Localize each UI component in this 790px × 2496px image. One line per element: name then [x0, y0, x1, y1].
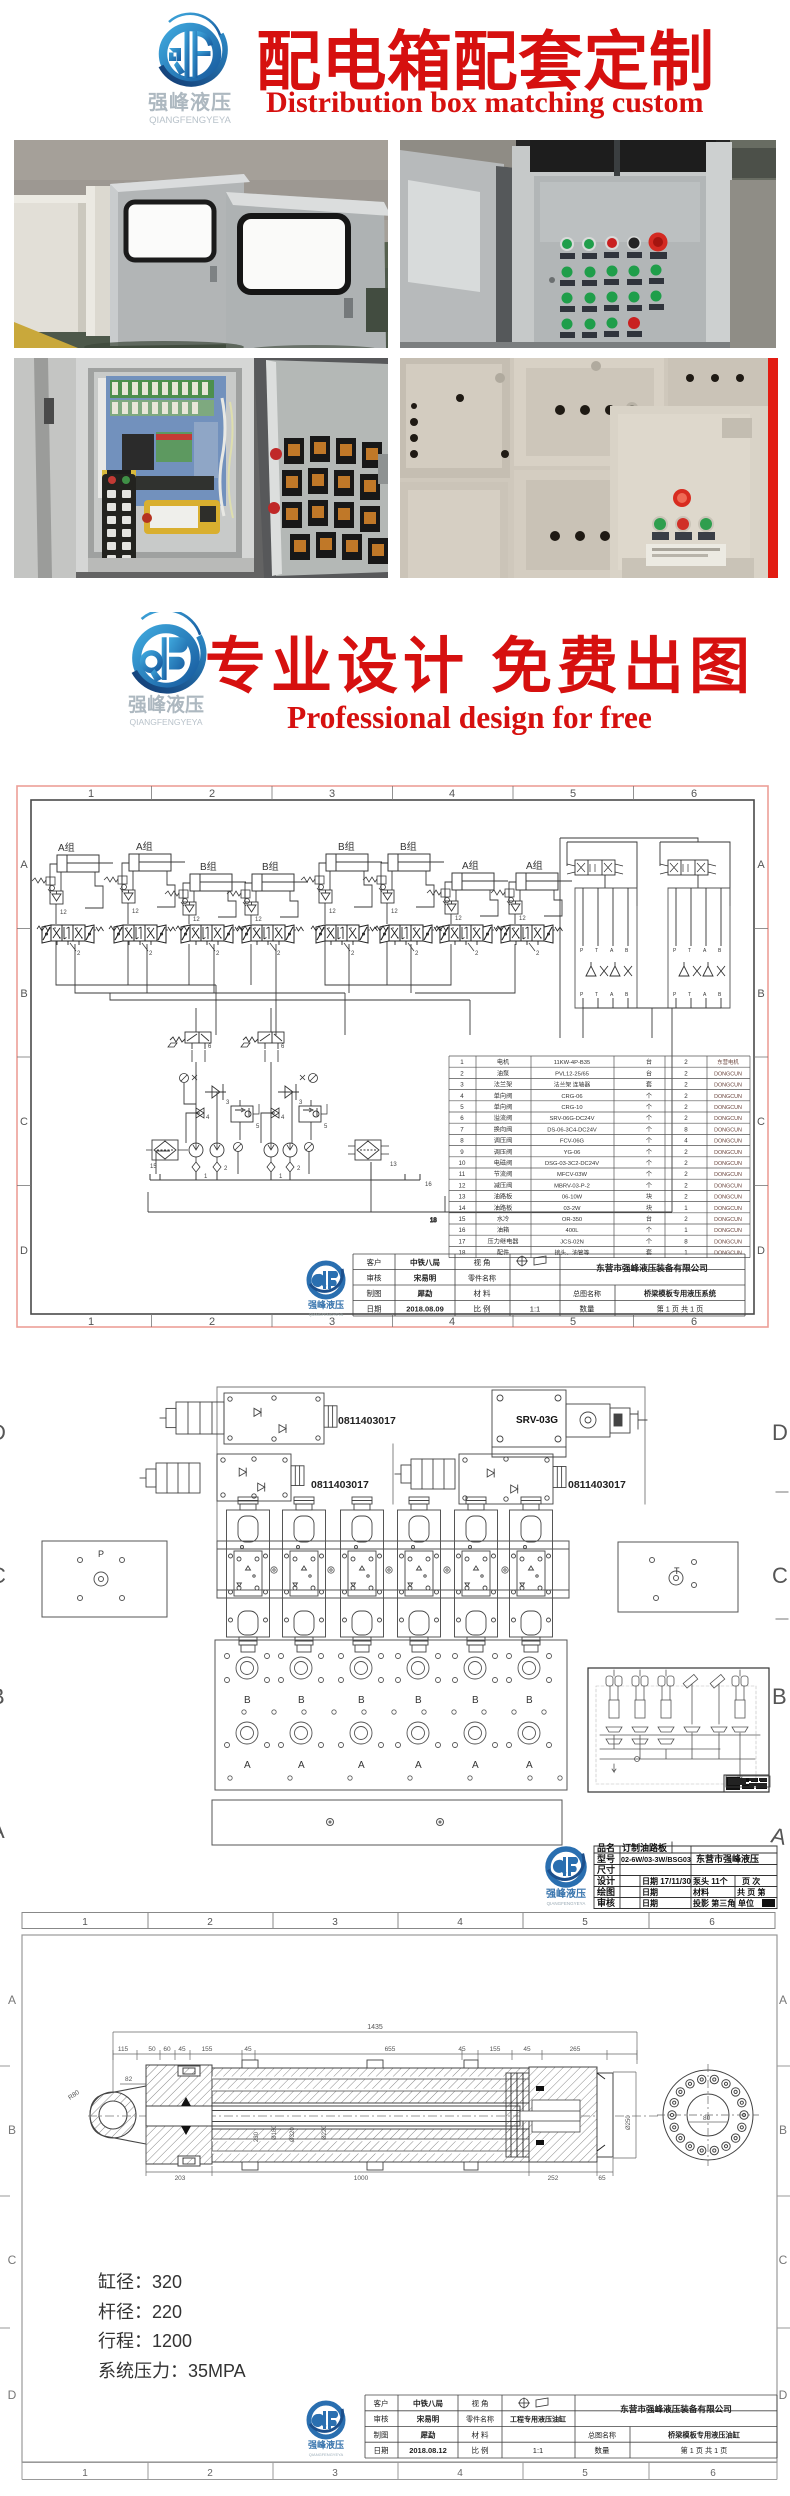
reducing valve RD1 [231, 1104, 260, 1130]
frame column ticks bottom [152, 1314, 634, 1327]
svg-text:2: 2 [216, 951, 220, 957]
svg-text:B: B [625, 992, 629, 998]
svg-text:12: 12 [391, 909, 398, 915]
svg-text:单位: 单位 [738, 1898, 754, 1908]
svg-text:1: 1 [460, 1059, 464, 1066]
cropped top frame line [0, 1352, 790, 1354]
svg-text:203: 203 [175, 2175, 186, 2182]
svg-text:B: B [0, 1684, 5, 1709]
svg-text:个: 个 [646, 1104, 652, 1111]
directional valve V5 [311, 925, 378, 957]
svg-text:4: 4 [457, 1917, 463, 1928]
relief pilot assembly RV1 [168, 1032, 212, 1062]
svg-text:日期: 日期 [367, 1304, 382, 1313]
svg-text:0811403017: 0811403017 [568, 1479, 626, 1491]
svg-text:B: B [625, 948, 629, 954]
svg-text:数量: 数量 [595, 2445, 610, 2455]
svg-text:个: 个 [646, 1171, 652, 1178]
svg-text:2: 2 [684, 1194, 688, 1201]
svg-text:1:1: 1:1 [530, 1304, 540, 1313]
svg-text:审核: 审核 [367, 1272, 382, 1282]
svg-text:配件: 配件 [497, 1249, 509, 1257]
cartridge valve column 5 [455, 1497, 498, 1652]
svg-text:1: 1 [684, 1205, 688, 1212]
svg-text:400L: 400L [566, 1228, 580, 1234]
svg-text:DONGCUN: DONGCUN [714, 1071, 742, 1077]
svg-text:油路板: 油路板 [494, 1193, 513, 1201]
cylinder group G6 B组 [363, 840, 444, 924]
svg-text:DONGCUN: DONGCUN [714, 1150, 742, 1156]
svg-text:个: 个 [646, 1238, 652, 1245]
svg-text:SRV-03G: SRV-03G [516, 1415, 558, 1426]
svg-text:DONGCUN: DONGCUN [714, 1161, 742, 1167]
svg-text:东营市强峰液压装备有限公司: 东营市强峰液压装备有限公司 [620, 2403, 732, 2414]
svg-text:B: B [298, 1695, 305, 1706]
svg-text:A组: A组 [462, 859, 479, 872]
svg-text:2: 2 [77, 951, 81, 957]
svg-text:5: 5 [582, 1917, 588, 1928]
frame tick dashes d3 [0, 2066, 790, 2328]
svg-text:A: A [8, 1993, 16, 2007]
svg-text:252: 252 [548, 2175, 559, 2182]
svg-text:7: 7 [460, 1126, 464, 1133]
svg-text:4: 4 [206, 1115, 210, 1121]
relief pilot assembly RV2 [241, 1032, 285, 1062]
svg-text:油路板: 油路板 [494, 1204, 513, 1212]
svg-text:DONGCUN: DONGCUN [714, 1183, 742, 1189]
cylinder group G1 A组 [32, 841, 113, 924]
cylinder rod eye [90, 2086, 146, 2144]
svg-text:客户: 客户 [367, 1257, 382, 1267]
svg-text:B: B [8, 2123, 16, 2137]
svg-text:MFCV-03W: MFCV-03W [557, 1172, 587, 1178]
svg-text:C: C [757, 1116, 765, 1128]
svg-text:PVL12-25/65: PVL12-25/65 [555, 1071, 589, 1077]
svg-text:10: 10 [459, 1160, 466, 1167]
rod [146, 2106, 520, 2126]
barrel top wall [212, 2068, 529, 2103]
svg-text:12: 12 [193, 917, 200, 923]
bottom tick band d3 [22, 2463, 777, 2480]
cylinder group G3 B组 [165, 860, 246, 924]
manifold base plate with A/B ports [215, 1640, 567, 1790]
svg-text:2: 2 [536, 951, 540, 957]
svg-text:QIANGFENGYEYA: QIANGFENGYEYA [309, 2452, 344, 2457]
cartridge valve column 3 [341, 1497, 384, 1652]
svg-text:2: 2 [684, 1171, 688, 1178]
svg-text:个: 个 [646, 1182, 652, 1189]
cartridge valve column 6 [510, 1497, 553, 1652]
pressure gauge g2 [300, 1074, 318, 1083]
solenoid valve assembly SV2 [140, 1454, 304, 1501]
svg-text:3: 3 [332, 1917, 338, 1928]
svg-text:B组: B组 [338, 840, 355, 853]
bottom tick numbers d2 [82, 1917, 715, 1928]
svg-text:数量: 数量 [580, 1303, 595, 1313]
svg-text:13: 13 [390, 1162, 397, 1168]
svg-text:A: A [0, 1818, 5, 1843]
svg-text:第 1 页 共 1 页: 第 1 页 共 1 页 [681, 2446, 728, 2455]
reducing valve RD2 [299, 1104, 328, 1130]
svg-text:1: 1 [88, 788, 94, 800]
svg-text:R80: R80 [67, 2089, 81, 2102]
svg-text:DS-06-3C4-DC24V: DS-06-3C4-DC24V [547, 1127, 597, 1133]
frame row letters [20, 859, 765, 1257]
seals marks [181, 2086, 544, 2145]
svg-text:东营电机: 东营电机 [717, 1058, 739, 1066]
frame column numbers bottom [88, 1316, 697, 1328]
right vertical dim line [613, 2072, 636, 2158]
svg-text:16: 16 [425, 1182, 432, 1188]
svg-text:230: 230 [254, 2131, 260, 2142]
svg-text:P: P [673, 992, 677, 998]
drawing inner frame [31, 800, 754, 1314]
svg-text:B组: B组 [200, 860, 217, 873]
svg-text:DONGCUN: DONGCUN [714, 1116, 742, 1122]
svg-text:2: 2 [684, 1082, 688, 1089]
svg-text:东营市强峰液压: 东营市强峰液压 [696, 1853, 759, 1864]
svg-text:T: T [674, 1566, 680, 1576]
svg-text:12: 12 [255, 917, 262, 923]
svg-text:3: 3 [460, 1082, 464, 1089]
svg-text:DONGCUN: DONGCUN [714, 1105, 742, 1111]
right frame letters d2 [769, 1420, 789, 1850]
svg-text:制图: 制图 [374, 2429, 389, 2439]
left partial letters d2 [0, 1420, 6, 1843]
svg-text:中铁八局: 中铁八局 [413, 2398, 443, 2408]
svg-text:155: 155 [202, 2046, 213, 2053]
svg-text:2018.08.09: 2018.08.09 [406, 1304, 444, 1313]
parts list table [449, 1056, 750, 1258]
svg-text:B组: B组 [400, 840, 417, 853]
svg-text:DONGCUN: DONGCUN [714, 1139, 742, 1145]
svg-text:减压阀: 减压阀 [494, 1181, 513, 1189]
bottom cover plate [212, 1800, 562, 1845]
svg-text:DONGCUN: DONGCUN [714, 1239, 742, 1245]
svg-text:A: A [769, 1822, 789, 1850]
svg-text:DONGCUN: DONGCUN [714, 1127, 742, 1133]
svg-text:CRG-10: CRG-10 [561, 1105, 582, 1111]
svg-text:Ø220: Ø220 [322, 2125, 328, 2140]
svg-text:B: B [718, 948, 722, 954]
svg-text:T: T [688, 948, 691, 954]
svg-text:2: 2 [684, 1149, 688, 1156]
inset title strip [724, 1775, 769, 1792]
svg-text:客户: 客户 [374, 2398, 389, 2408]
svg-text:2: 2 [684, 1070, 688, 1077]
svg-text:个: 个 [646, 1227, 652, 1234]
svg-text:5: 5 [570, 788, 576, 800]
svg-text:东营市强峰液压装备有限公司: 东营市强峰液压装备有限公司 [596, 1262, 708, 1273]
solenoid valve assembly SV1 [160, 1393, 337, 1444]
svg-text:DONGCUN: DONGCUN [714, 1206, 742, 1212]
svg-text:总图名称: 总图名称 [588, 2430, 616, 2439]
svg-text:1: 1 [279, 1174, 283, 1180]
svg-text:A: A [703, 992, 707, 998]
svg-text:A: A [358, 1760, 365, 1771]
frame letters d3 [8, 1993, 788, 2402]
svg-text:电机: 电机 [497, 1058, 510, 1066]
svg-text:3: 3 [226, 1100, 230, 1106]
svg-text:1: 1 [82, 1917, 88, 1928]
svg-text:12: 12 [329, 909, 336, 915]
svg-text:投影 第三角: 投影 第三角 [693, 1898, 735, 1908]
directional valve V1 [37, 925, 104, 957]
svg-text:0811403017: 0811403017 [338, 1415, 396, 1427]
svg-text:台: 台 [646, 1215, 652, 1223]
svg-text:15: 15 [150, 1164, 157, 1170]
svg-text:P: P [580, 992, 584, 998]
mounting back plate outline [217, 1387, 645, 1540]
logo small 2 [546, 1849, 586, 1906]
svg-text:1: 1 [82, 2468, 88, 2479]
cylinder group G4 B组 [227, 860, 308, 924]
pump P2 [264, 1143, 314, 1181]
svg-text:B: B [757, 988, 764, 1000]
svg-text:2: 2 [149, 951, 153, 957]
pressure gauge g1 [180, 1074, 198, 1083]
svg-text:台: 台 [646, 1058, 652, 1066]
dim total 1435 [113, 2032, 637, 2092]
svg-text:15: 15 [459, 1216, 466, 1223]
svg-text:4: 4 [457, 2468, 463, 2479]
barrel inner lines [212, 2078, 529, 2152]
svg-text:2: 2 [460, 1070, 464, 1077]
svg-text:155: 155 [490, 2046, 501, 2053]
directional valve V6 [375, 925, 442, 957]
svg-text:OR-350: OR-350 [562, 1217, 582, 1223]
svg-text:个: 个 [646, 1126, 652, 1133]
svg-text:8: 8 [684, 1126, 688, 1133]
svg-text:犀勐: 犀勐 [417, 1288, 433, 1298]
svg-text:2: 2 [277, 951, 281, 957]
svg-text:材料: 材料 [693, 1887, 709, 1897]
svg-text:SRV-06G-DC24V: SRV-06G-DC24V [550, 1116, 595, 1122]
svg-text:宋易明: 宋易明 [417, 2414, 440, 2424]
throttle T1 [196, 1108, 210, 1121]
manifold block face [217, 1541, 569, 1598]
svg-text:油箱: 油箱 [497, 1226, 509, 1234]
svg-text:桥梁模板专用液压系统: 桥梁模板专用液压系统 [644, 1289, 717, 1298]
svg-text:B: B [779, 2123, 787, 2137]
svg-text:4: 4 [684, 1138, 688, 1145]
top bosses [242, 2060, 478, 2170]
svg-text:QIANGFENGYEYA: QIANGFENGYEYA [129, 717, 202, 727]
svg-text:2: 2 [684, 1216, 688, 1223]
svg-text:265: 265 [570, 2046, 581, 2053]
T port plate [618, 1542, 738, 1612]
frame d3 [22, 1935, 777, 2462]
svg-text:45: 45 [523, 2046, 531, 2053]
photo 2: control panel with buttons [400, 140, 776, 348]
svg-text:A: A [298, 1760, 305, 1771]
inset mini schematic [588, 1668, 769, 1792]
title block logo [308, 1263, 344, 1317]
svg-text:8: 8 [460, 1138, 464, 1145]
svg-text:DONGCUN: DONGCUN [714, 1094, 742, 1100]
return line [148, 1008, 672, 1224]
svg-text:8: 8 [684, 1238, 688, 1245]
svg-text:QIANGFENGYEYA: QIANGFENGYEYA [547, 1901, 586, 1906]
svg-text:3: 3 [332, 2468, 338, 2479]
svg-text:13: 13 [459, 1194, 466, 1201]
svg-text:14: 14 [459, 1205, 466, 1212]
cartridge valve column 2 [283, 1497, 326, 1652]
svg-text:B组: B组 [262, 860, 279, 873]
mounting holes rows [228, 1710, 562, 1780]
svg-text:QIANGFENGYEYA: QIANGFENGYEYA [149, 115, 231, 126]
svg-text:6: 6 [208, 1044, 212, 1050]
svg-text:02-6W/03-3W/BSG03: 02-6W/03-3W/BSG03 [621, 1855, 691, 1864]
svg-text:A: A [757, 859, 765, 871]
svg-text:调压阀: 调压阀 [494, 1137, 513, 1145]
rod inside rear [520, 2111, 580, 2121]
svg-text:45: 45 [244, 2046, 252, 2053]
svg-text:6: 6 [710, 2468, 716, 2479]
svg-text:2: 2 [415, 951, 419, 957]
A port row [225, 1722, 552, 1748]
svg-text:第 1 页 共 1 页: 第 1 页 共 1 页 [657, 1304, 704, 1313]
svg-text:1435: 1435 [367, 2024, 383, 2031]
cartridge valve column 4 [398, 1497, 441, 1652]
pump connection wires [156, 1008, 371, 1212]
P port plate [42, 1541, 167, 1617]
small bolt holes on face [271, 1567, 508, 1573]
svg-text:65: 65 [598, 2175, 606, 2182]
svg-text:材 料: 材 料 [473, 1288, 491, 1298]
svg-text:D: D [20, 1245, 28, 1257]
directional valve V7 [435, 925, 502, 957]
svg-text:9: 9 [460, 1149, 464, 1156]
svg-text:2: 2 [207, 2468, 213, 2479]
gland block [146, 2065, 212, 2166]
frame column ticks top [152, 786, 634, 800]
manifold tower M1 [567, 842, 637, 1008]
svg-text:型号: 型号 [597, 1853, 615, 1864]
svg-text:视 角: 视 角 [471, 2398, 488, 2408]
svg-text:日期: 日期 [642, 1887, 658, 1897]
svg-text:材 料: 材 料 [471, 2429, 489, 2439]
vertical dim texts [254, 2115, 632, 2142]
svg-text:DONGCUN: DONGCUN [714, 1083, 742, 1089]
svg-text:2: 2 [684, 1115, 688, 1122]
svg-text:2: 2 [351, 951, 355, 957]
svg-text:DONGCUN: DONGCUN [714, 1195, 742, 1201]
svg-text:4: 4 [460, 1093, 464, 1100]
svg-text:1: 1 [684, 1227, 688, 1234]
svg-text:12: 12 [519, 916, 526, 922]
svg-text:12: 12 [459, 1182, 466, 1189]
svg-text:DONGCUN: DONGCUN [714, 1217, 742, 1223]
svg-text:视 角: 视 角 [473, 1257, 490, 1267]
svg-text:6: 6 [281, 1044, 285, 1050]
svg-text:A: A [415, 1760, 422, 1771]
photo 1: stainless boxes on floor [14, 140, 388, 348]
svg-text:B: B [772, 1684, 787, 1709]
svg-text:强峰液压: 强峰液压 [308, 2439, 344, 2450]
svg-text:11KW-4P-B35: 11KW-4P-B35 [554, 1060, 591, 1066]
svg-text:犀勐: 犀勐 [420, 2429, 436, 2439]
svg-text:个: 个 [646, 1160, 652, 1167]
svg-text:6: 6 [691, 1316, 697, 1328]
svg-text:比 例: 比 例 [473, 1303, 490, 1313]
frame column numbers top [88, 788, 697, 800]
svg-text:A: A [703, 948, 707, 954]
svg-text:MBRV-03-P-2: MBRV-03-P-2 [554, 1183, 590, 1189]
svg-text:12: 12 [132, 909, 139, 915]
svg-text:QIANGFENGYEYA: QIANGFENGYEYA [309, 1312, 344, 1317]
piston [506, 2073, 529, 2157]
svg-text:2: 2 [475, 951, 479, 957]
svg-text:5: 5 [324, 1124, 328, 1130]
throttle T2 [271, 1108, 285, 1121]
svg-text:DONGCUN: DONGCUN [714, 1228, 742, 1234]
svg-text:12: 12 [60, 910, 67, 916]
cylinder group G2 A组 [104, 840, 185, 924]
svg-text:绘图: 绘图 [597, 1886, 615, 1897]
svg-text:A组: A组 [58, 841, 75, 854]
svg-text:C: C [772, 1563, 788, 1588]
B port row [225, 1654, 552, 1683]
title block 3 grid [365, 2395, 777, 2458]
svg-text:D: D [0, 1420, 6, 1445]
svg-text:台: 台 [646, 1069, 652, 1077]
cylinder group G8 A组 [491, 859, 572, 924]
svg-text:泵头 11个: 泵头 11个 [693, 1876, 729, 1886]
svg-text:2: 2 [684, 1160, 688, 1167]
relief valve RVb [285, 1084, 303, 1106]
svg-text:1: 1 [204, 1174, 208, 1180]
flange end view [663, 2070, 753, 2160]
svg-text:调压阀: 调压阀 [494, 1148, 513, 1156]
svg-text:单向阀: 单向阀 [494, 1092, 513, 1100]
svg-text:11: 11 [459, 1171, 466, 1178]
svg-text:制图: 制图 [367, 1288, 382, 1298]
svg-text:6: 6 [691, 788, 697, 800]
svg-text:12: 12 [455, 916, 462, 922]
svg-text:个: 个 [646, 1115, 652, 1122]
svg-text:订制油路板: 订制油路板 [622, 1842, 668, 1853]
title block 3 text [374, 2398, 741, 2455]
svg-text:块: 块 [646, 1193, 652, 1201]
svg-text:C: C [8, 2253, 17, 2267]
svg-text:C: C [779, 2253, 788, 2267]
svg-text:设计: 设计 [597, 1875, 615, 1886]
suction filter F1 [146, 1140, 188, 1170]
manifold tower M2 [660, 842, 730, 1008]
svg-text:水冷: 水冷 [497, 1215, 509, 1223]
svg-text:A组: A组 [526, 859, 543, 872]
svg-text:B: B [718, 992, 722, 998]
svg-text:A: A [610, 992, 614, 998]
svg-text:套: 套 [646, 1081, 652, 1089]
svg-text:换向阀: 换向阀 [494, 1125, 513, 1133]
svg-text:2: 2 [207, 1917, 213, 1928]
view symbols [518, 2398, 548, 2409]
svg-text:4: 4 [449, 788, 455, 800]
svg-text:强峰液压: 强峰液压 [128, 693, 204, 716]
svg-text:强峰液压: 强峰液压 [308, 1299, 344, 1310]
logo QF [128, 6, 248, 130]
svg-text:零件名称: 零件名称 [466, 2415, 494, 2424]
svg-text:T: T [688, 992, 691, 998]
svg-text:5: 5 [256, 1124, 260, 1130]
oil tank [150, 1162, 432, 1188]
svg-text:DSG-03-3C2-DC24V: DSG-03-3C2-DC24V [545, 1161, 599, 1167]
bottom tick band d2 [22, 1913, 775, 1929]
frame row ticks [17, 929, 768, 1186]
svg-text:DONGCUN: DONGCUN [714, 1172, 742, 1178]
